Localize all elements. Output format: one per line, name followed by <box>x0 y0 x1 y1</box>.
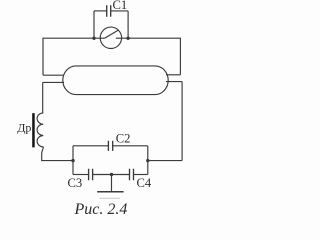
wire lamp upper-left lead <box>43 74 64 76</box>
capacitor C4 plates <box>130 169 134 181</box>
wire C2 row left <box>73 145 108 147</box>
junction dot top-right of starter <box>126 37 129 40</box>
wire C1 left vertical <box>93 11 95 38</box>
junction node ground midpoint <box>110 173 113 176</box>
wire lamp lower-right lead <box>166 81 182 83</box>
wire top-right vertical <box>179 38 181 75</box>
wire choke bottom to node <box>42 147 73 161</box>
wire ground vertical <box>111 175 113 192</box>
wire C3C4 row right <box>134 174 148 176</box>
capacitor C2 plates <box>108 141 112 151</box>
wire top horizontal left segment <box>43 37 105 39</box>
wire bottom network right vertical <box>147 146 149 175</box>
inductor core bar <box>32 113 35 147</box>
wire C1 right vertical <box>127 11 129 38</box>
wire bottom network left vertical <box>72 146 74 175</box>
capacitor C1 plates <box>107 5 111 17</box>
wire top horizontal right segment <box>116 37 181 39</box>
wire C3C4 row left <box>73 174 89 176</box>
inductor choke Dr coil <box>37 113 43 147</box>
ground bar <box>97 191 123 193</box>
wire lamp lower-left lead <box>43 81 64 83</box>
wire left vertical to choke <box>42 82 44 113</box>
svg-text:Рис. 2.4: Рис. 2.4 <box>74 201 128 218</box>
wire C1 left lead <box>94 10 107 12</box>
svg-text:C2: C2 <box>116 132 131 146</box>
junction dot top-left of starter <box>92 37 95 40</box>
junction node left of capacitor bank <box>71 159 74 162</box>
wire lamp upper-right lead <box>166 74 180 76</box>
svg-text:C1: C1 <box>113 0 128 12</box>
ground faint second bar <box>100 197 121 199</box>
wire C1 right lead <box>111 10 128 12</box>
wire bottom-right horizontal <box>148 160 182 162</box>
wire C2 row right <box>113 145 148 147</box>
starter lamp S1 circle <box>100 27 121 48</box>
wire C3C4 row middle <box>93 174 130 176</box>
svg-text:C4: C4 <box>137 176 152 190</box>
capacitor C3 plates <box>89 169 93 181</box>
starter contact diagonal <box>105 30 119 38</box>
lamp tube EL1 <box>63 66 168 95</box>
wire left corner vertical <box>42 38 44 75</box>
svg-text:C3: C3 <box>68 176 83 190</box>
wire right vertical down <box>181 82 183 161</box>
junction node right of capacitor bank <box>146 159 149 162</box>
svg-text:Др: Др <box>17 120 31 134</box>
